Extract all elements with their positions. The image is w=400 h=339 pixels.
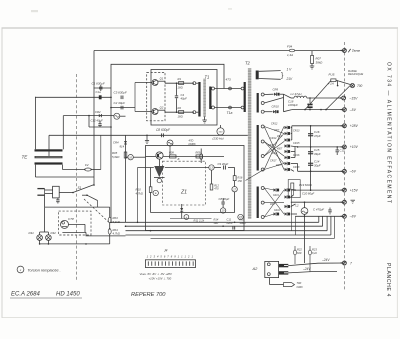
connector A2 body: [265, 261, 279, 277]
terminal chassis ground: [343, 200, 347, 204]
svg-text:914: 914: [120, 145, 125, 149]
svg-text:700: 700: [357, 84, 363, 88]
wire +10V rail: [298, 146, 345, 148]
svg-text:CR15: CR15: [293, 142, 300, 145]
svg-text:R2: R2: [178, 106, 182, 110]
regulator box: [146, 146, 245, 231]
svg-text:C2 30μF: C2 30μF: [114, 101, 126, 105]
svg-text:DS1: DS1: [29, 231, 35, 235]
mechanical link dashed: [84, 199, 110, 223]
wire after 13: [214, 167, 221, 169]
wire CTP internal: [69, 223, 86, 225]
svg-text:REPERE 700: REPERE 700: [131, 292, 166, 298]
wire CR2 rail: [63, 115, 114, 117]
A2 blade 2: [279, 271, 289, 274]
svg-text:R19 820Ω: R19 820Ω: [299, 183, 313, 187]
svg-text:–6V: –6V: [349, 170, 357, 174]
svg-text:4,7kΩ: 4,7kΩ: [136, 192, 144, 196]
capacitor C16: [308, 133, 313, 134]
wire -24V lower: [288, 271, 337, 273]
resistor R12 column: [211, 170, 213, 184]
page top border: [2, 27, 399, 29]
thermistor CTP: [61, 220, 69, 228]
wire rectifier drop 2: [294, 216, 296, 235]
wire cap rail y97: [35, 96, 111, 98]
terminal -8V: [343, 214, 347, 218]
wire cap rail y88: [94, 87, 112, 89]
svg-text:TE: TE: [22, 155, 29, 160]
zener diode vertical: [180, 208, 183, 211]
wire Q1 base: [135, 82, 152, 84]
T2 tap legend lines: [259, 70, 281, 73]
g2 terminal 3: [261, 155, 264, 158]
svg-text:C20 80μF: C20 80μF: [302, 192, 315, 196]
wire -6V rail: [298, 170, 345, 172]
g3 output joins: [291, 189, 295, 191]
svg-text:CR16: CR16: [293, 154, 300, 157]
resistor R03: [109, 207, 111, 217]
T1 core ground: [204, 117, 206, 121]
svg-text:C8 40μF: C8 40μF: [219, 197, 230, 201]
wire link top: [215, 88, 242, 90]
svg-text:Terre: Terre: [352, 49, 360, 53]
svg-text:18Ω: 18Ω: [178, 86, 184, 90]
bus line 3: [126, 230, 328, 232]
oscillator box: [151, 70, 217, 126]
g2 terminal 4: [261, 168, 264, 171]
terminal +28V: [343, 124, 347, 128]
wire primary bottom lead: [196, 111, 199, 113]
svg-text:47Ω: 47Ω: [189, 139, 194, 143]
wire plug down: [44, 195, 46, 207]
svg-text:+10V: +10V: [350, 145, 359, 149]
svg-text:CTP: CTP: [68, 217, 74, 221]
wire lamp tee: [40, 231, 49, 233]
node link top: [229, 87, 232, 90]
svg-text:+15V: +15V: [350, 188, 359, 192]
svg-text:Q1: Q1: [160, 77, 164, 81]
capacitor C14: [308, 163, 313, 164]
svg-text:T1a: T1a: [227, 111, 233, 115]
transistor Q1: [152, 80, 158, 86]
diode CR9: [274, 93, 277, 96]
svg-text:C 470μF: C 470μF: [313, 208, 324, 212]
svg-text:EC.A 2684: EC.A 2684: [11, 292, 40, 298]
svg-text:39μF: 39μF: [314, 152, 321, 156]
node W circle: [153, 190, 158, 195]
g1 terminal 1: [261, 93, 264, 96]
resistor R08: [170, 155, 177, 158]
bus junction dots: [110, 222, 112, 224]
diode CR11: [273, 110, 276, 113]
svg-text:1,4A: 1,4A: [287, 53, 293, 57]
svg-text:21V: 21V: [286, 77, 294, 81]
svg-text:a: a: [178, 157, 180, 161]
svg-text:L2: L2: [296, 204, 300, 208]
svg-text:C1 630μF: C1 630μF: [92, 81, 105, 85]
node B circle: [167, 140, 173, 146]
dashed box Z1: [163, 161, 206, 205]
wire bar1 up: [34, 97, 36, 150]
svg-text:FUS: FUS: [329, 73, 335, 77]
terminal -15V: [342, 96, 346, 100]
capacitor C1a: [100, 85, 102, 87]
wire CTP exit staircase: [62, 231, 86, 233]
g3 terminal 3: [261, 216, 264, 219]
svg-text:A2: A2: [252, 266, 259, 271]
resistor R10: [149, 187, 152, 193]
mains bar 3: [35, 162, 63, 164]
resistor R1: [179, 82, 184, 85]
svg-text:4007: 4007: [277, 148, 283, 151]
title OX 734 - ALIMENTATION EFFACEMENT: [385, 62, 391, 204]
switch S1a: [73, 185, 94, 193]
capacitor C15: [308, 151, 313, 152]
capacitor C2b: [120, 106, 122, 110]
bus line 1: [111, 221, 319, 223]
wire filter to switch: [59, 192, 73, 194]
T2 secondary winding g1: [257, 93, 259, 113]
wire -24V upper: [288, 263, 344, 266]
svg-text:OX 734 — ALIMENTATION EFFACEME: OX 734 — ALIMENTATION EFFACEMENT: [385, 62, 391, 204]
junction dots left mesh: [110, 97, 112, 99]
svg-text:+10V +15V ⊥ 700: +10V +15V ⊥ 700: [149, 277, 172, 281]
svg-text:7: 7: [350, 261, 352, 265]
svg-text:HD 1450: HD 1450: [56, 292, 80, 298]
svg-text:CR10: CR10: [272, 105, 280, 109]
fuse F2: [85, 168, 91, 171]
terminal 700 test: [350, 84, 354, 88]
vertical cap column: [310, 126, 312, 191]
svg-text:J4: J4: [164, 249, 168, 253]
svg-text:DS2: DS2: [51, 231, 57, 235]
fuse F04 on top rail: [289, 49, 294, 52]
page right border: [396, 28, 398, 318]
wire +15V rail: [295, 189, 344, 191]
left dashed reference line: [76, 74, 78, 280]
T1 secondary winding: [209, 87, 211, 110]
wire +28V rail: [292, 125, 345, 127]
resistor R05 body: [124, 152, 127, 158]
node 15 circle: [238, 214, 243, 219]
bus line 2: [126, 225, 323, 227]
node R03 R04: [109, 223, 111, 229]
svg-text:R23: R23: [312, 248, 317, 252]
resistor R16: [233, 176, 236, 181]
svg-text:820: 820: [297, 251, 302, 255]
scan smudge top-mid: [228, 8, 232, 10]
capacitor across filter: [57, 198, 59, 200]
g2 output joins: [291, 127, 292, 129]
J4 connector body: [145, 260, 195, 268]
svg-text:Torsion remplacée .: Torsion remplacée .: [28, 268, 61, 272]
svg-text:CRD: CRD: [297, 285, 303, 289]
wire diag to 700: [326, 85, 350, 109]
capacitor C3: [120, 96, 122, 100]
wire -8V rail: [295, 215, 344, 217]
terminal +10V: [343, 145, 347, 149]
g1 crossing wire: [264, 98, 283, 104]
svg-text:MECANIQUE: MECANIQUE: [348, 73, 363, 76]
T1 secondary terminal top: [212, 87, 215, 90]
T2 secondary winding g3: [257, 187, 259, 219]
wire ground rail: [291, 201, 345, 203]
T2 secondary winding g2: [257, 125, 259, 171]
svg-text:1kΩ: 1kΩ: [214, 221, 219, 225]
diode CR2: [99, 114, 102, 117]
dashed box CTP: [59, 211, 91, 235]
svg-text:–15V: –15V: [349, 96, 359, 100]
svg-text:C8 630μF: C8 630μF: [156, 128, 171, 132]
g3 diode stack CR20-CR23: [285, 188, 288, 191]
lamp DS1: [37, 235, 43, 241]
g2 diode stack CR12-CR19: [285, 126, 288, 129]
g3 terminal 1: [261, 187, 264, 190]
mains plug: [37, 188, 44, 190]
svg-text:–24V: –24V: [321, 258, 330, 262]
g1 terminal 3: [261, 110, 264, 113]
inductor L1: [294, 96, 307, 98]
SCR triangle: [154, 166, 164, 177]
node T1 primary top: [193, 82, 196, 85]
svg-text:R09: R09: [196, 151, 201, 155]
svg-text:F2: F2: [85, 163, 89, 167]
staircase to bus: [86, 232, 126, 236]
svg-text:T2: T2: [245, 61, 251, 66]
wire bus 230Hz rail: [49, 134, 248, 136]
resistor R04: [108, 229, 111, 234]
ground below R07: [310, 65, 315, 67]
lamp DS2: [46, 235, 52, 241]
wire node16: [126, 156, 128, 158]
node T1 primary bottom: [193, 111, 196, 114]
transistor Q3: [156, 152, 163, 159]
wire lamp bottoms: [39, 240, 41, 244]
svg-text:R05: R05: [112, 151, 118, 155]
T2 primary winding: [244, 82, 246, 112]
node link bottom: [229, 106, 232, 109]
svg-text:5,1kΩ: 5,1kΩ: [113, 220, 121, 224]
svg-text:F04: F04: [287, 45, 293, 49]
T1 core: [203, 79, 206, 117]
capacitor C12 branch: [88, 116, 90, 127]
capacitor C13 small: [336, 147, 338, 150]
svg-text:CR12: CR12: [271, 123, 278, 126]
svg-text:CR4: CR4: [113, 140, 119, 144]
svg-text:47μF: 47μF: [314, 134, 321, 138]
page left border: [1, 28, 3, 318]
capacitor C2 blob: [99, 95, 102, 99]
svg-text:CR9: CR9: [273, 88, 279, 92]
wire riser x101: [100, 135, 102, 169]
g1 out to -15V: [284, 94, 292, 98]
resistor R07: [311, 51, 313, 56]
ground lug wire: [269, 278, 271, 285]
svg-text:39kΩ: 39kΩ: [316, 61, 324, 65]
T1 secondary terminal bottom: [212, 106, 215, 109]
svg-text:C13: C13: [340, 149, 345, 153]
capacitor C9: [223, 166, 225, 170]
internal rail y157: [146, 156, 156, 158]
svg-text:DM06: DM06: [189, 142, 196, 146]
output junction dots: [310, 125, 312, 127]
svg-text:CR2: CR2: [95, 110, 101, 114]
wire zener rail: [181, 215, 183, 219]
g1 wire top: [264, 93, 273, 95]
bus line 5: [151, 237, 335, 239]
terminal J7: [343, 261, 347, 265]
right dashed terminal line: [343, 42, 345, 290]
inductor L2 node: [301, 208, 308, 215]
terminal -5V: [343, 108, 347, 112]
oscillator frequency note: [217, 128, 224, 135]
ground lug: [284, 283, 295, 287]
svg-text:C3 630μF: C3 630μF: [114, 91, 127, 95]
svg-text:18Ω: 18Ω: [178, 115, 184, 119]
capacitor C4: [176, 83, 178, 95]
inner supply box: [111, 64, 224, 222]
wire main top rail: [94, 50, 344, 52]
wire oscillator feed: [93, 51, 95, 186]
svg-text:CR18: CR18: [293, 166, 300, 169]
resistor R09: [196, 155, 203, 158]
svg-text:1000μF: 1000μF: [288, 103, 298, 107]
svg-text:2200: 2200: [226, 221, 233, 225]
svg-text:L1 47μH: L1 47μH: [291, 92, 303, 96]
svg-text:R1: R1: [178, 77, 182, 81]
svg-text:CR14: CR14: [270, 137, 277, 140]
wire column x1255: [125, 135, 127, 222]
wire Q2 collector rail: [158, 109, 165, 111]
mains bar 2: [35, 156, 63, 158]
wire R10 column: [150, 168, 152, 187]
line filter F1: [53, 186, 60, 198]
wire left drop: [137, 168, 139, 223]
svg-text:470: 470: [214, 187, 219, 191]
svg-text:8,2k: 8,2k: [312, 251, 318, 255]
switch S1b: [87, 195, 98, 200]
svg-text:Q2: Q2: [160, 106, 164, 110]
svg-text:4007: 4007: [276, 164, 282, 167]
g3 terminal 2: [261, 201, 264, 204]
g1 wire bottom: [264, 111, 272, 113]
ground at bus: [146, 135, 148, 140]
resistor R22 stub: [294, 246, 296, 264]
terminal Terre: [343, 49, 347, 53]
title PLANCHE 4: [385, 263, 391, 297]
wire link bottom: [215, 107, 242, 109]
T1 primary winding: [198, 82, 200, 117]
svg-text:4T3: 4T3: [226, 77, 232, 81]
page bottom border: [2, 317, 399, 319]
svg-text:–8V: –8V: [349, 215, 357, 219]
node 19 circle: [220, 208, 225, 213]
svg-text:C1a: C1a: [96, 90, 102, 94]
wire lamp feed: [44, 207, 46, 232]
g3 crossing wires: [264, 188, 284, 214]
g2 terminal 2: [261, 140, 264, 143]
svg-text:CR21: CR21: [273, 195, 280, 197]
svg-text:C12 40μF: C12 40μF: [91, 119, 104, 123]
wire freq note stub: [220, 125, 222, 128]
wire bottom internal rail: [151, 212, 235, 214]
svg-text:+28V: +28V: [350, 124, 359, 128]
wire after node A: [120, 115, 126, 117]
wire primary top lead: [196, 82, 199, 84]
A2 blade 1: [279, 264, 289, 267]
T2 tap legend bar: [256, 71, 259, 80]
scan smudge top-left: [31, 10, 38, 12]
svg-text:CR13: CR13: [293, 130, 300, 133]
wire mains lower rail: [45, 206, 110, 208]
T2 core: [248, 69, 251, 220]
resistor R2: [179, 111, 184, 114]
terminal +15V: [343, 188, 347, 192]
wire base rail join: [134, 83, 136, 112]
g1 out to -5V: [284, 110, 292, 112]
node 13 circle: [209, 165, 214, 170]
diode CR4: [124, 141, 127, 144]
wire bar2 up: [48, 135, 50, 156]
wire cap rail y107: [111, 107, 135, 109]
svg-text:(230 Hz): (230 Hz): [212, 136, 223, 140]
svg-text:39kΩ: 39kΩ: [240, 221, 246, 225]
svg-text:4007: 4007: [274, 129, 280, 132]
node 16 circle: [128, 155, 133, 160]
svg-text:4,7kΩ: 4,7kΩ: [113, 231, 121, 235]
wire L1 to -15V terminal: [307, 97, 342, 99]
svg-text:PLANCHE 4: PLANCHE 4: [385, 263, 391, 297]
wire g2 diag to Z1: [246, 170, 264, 181]
svg-text:5,6kΩ: 5,6kΩ: [112, 155, 120, 159]
note circle x: [17, 266, 24, 273]
g2 terminal 1: [261, 125, 264, 128]
svg-text:Vues -5V -6V ⊥ -8V +28V: Vues -5V -6V ⊥ -8V +28V: [140, 272, 173, 276]
J4 pin ticks: [147, 261, 149, 265]
svg-text:S1: S1: [78, 186, 82, 190]
wire rectifier drop 1: [291, 190, 293, 231]
wire 17 down: [234, 181, 236, 187]
terminal -6V: [343, 169, 347, 173]
g2 crossing wires: [264, 127, 284, 170]
wire fuse down leg: [337, 80, 339, 85]
wire Q3 to SCR: [159, 159, 161, 166]
wire y1675 rail: [138, 167, 154, 169]
resistor R06 small: [200, 154, 203, 160]
wire fuse to riser: [91, 169, 101, 171]
capacitor C19 blob: [309, 98, 311, 103]
node A circle: [114, 113, 120, 119]
wire Q2 base: [135, 111, 152, 113]
doc underline: [10, 297, 82, 299]
dashed box Q1 Q2: [147, 72, 165, 120]
svg-text:40μF: 40μF: [181, 97, 188, 101]
wire lamp return rail: [40, 243, 110, 245]
wire neutral bottom: [34, 165, 36, 177]
mains bar 1: [35, 149, 63, 151]
transistor Q2: [152, 109, 158, 115]
svg-text:CR17: CR17: [270, 160, 277, 163]
node plus circle: [184, 215, 189, 220]
node 17 circle: [232, 187, 237, 192]
svg-text:30μF: 30μF: [314, 164, 321, 168]
bus line 4: [126, 234, 331, 236]
g2 extra crossings: [264, 142, 284, 164]
rectifier block box: [288, 180, 300, 198]
g1 wire after CR9: [280, 93, 284, 95]
wire bar bottom to fuse: [62, 165, 64, 170]
svg-text:CR22: CR22: [274, 210, 281, 212]
